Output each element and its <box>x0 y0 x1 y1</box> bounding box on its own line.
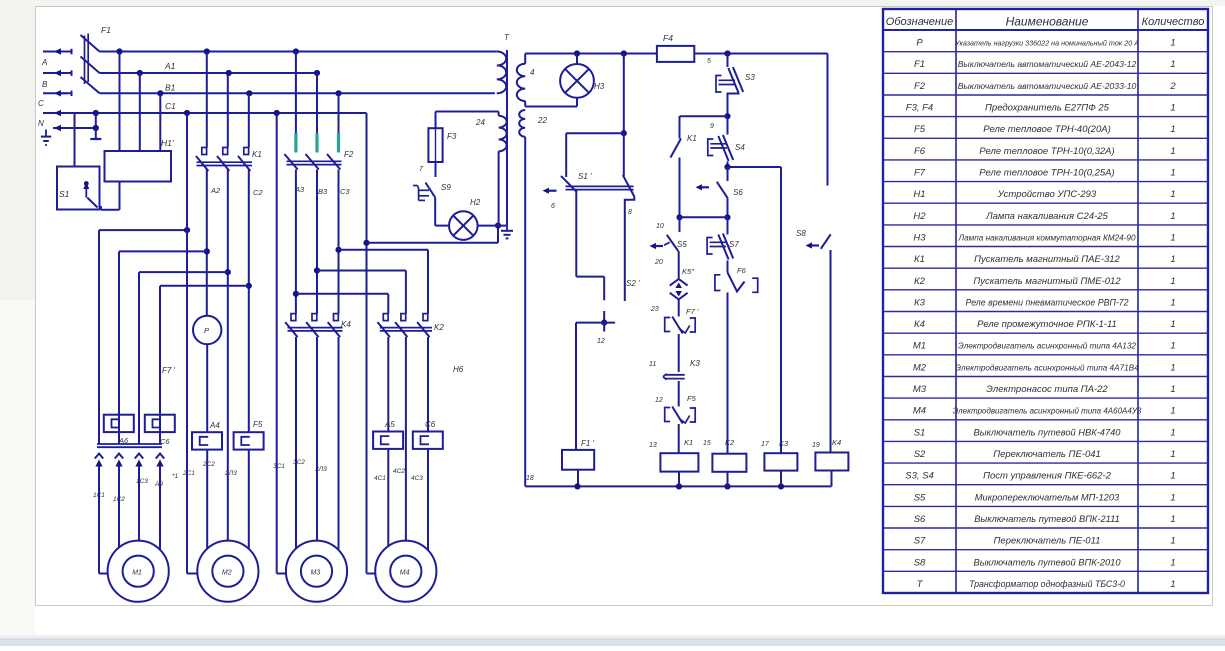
svg-text:S4: S4 <box>735 143 745 152</box>
svg-text:К4: К4 <box>914 319 925 330</box>
wire C1 to N tie <box>90 113 101 139</box>
wire node to coil F1 <box>575 323 577 450</box>
svg-text:F7: F7 <box>914 168 926 179</box>
svg-text:1: 1 <box>1170 189 1175 200</box>
svg-text:F4: F4 <box>663 33 673 43</box>
transformer winding 4 <box>517 54 535 102</box>
wire K1 pole1 down <box>204 170 210 316</box>
switch S9 fixed fork <box>413 186 429 201</box>
wire F2 pole1 down <box>293 170 299 314</box>
svg-text:S1: S1 <box>914 427 926 438</box>
svg-text:K5": K5" <box>682 267 694 276</box>
motor M2 <box>197 541 258 602</box>
svg-text:22: 22 <box>537 116 547 125</box>
lamp H3 <box>560 54 605 98</box>
fuse F4 <box>657 33 694 62</box>
svg-text:Трансформатор однофазный ТБС3-: Трансформатор однофазный ТБС3-0 <box>969 579 1125 589</box>
transformer T core <box>504 33 510 226</box>
switch S7 wire <box>727 217 729 234</box>
svg-text:F1: F1 <box>101 25 111 35</box>
svg-text:A: A <box>41 58 47 67</box>
svg-text:4: 4 <box>530 68 535 77</box>
svg-text:1: 1 <box>1170 557 1175 568</box>
switch S8 <box>796 229 831 249</box>
wire branch to M1 phase d <box>160 286 249 415</box>
table row S8 <box>914 557 1176 568</box>
contactor K2 main contacts <box>378 314 445 338</box>
wire rail to S1 second pole <box>621 54 627 137</box>
table row S2 <box>914 449 1176 460</box>
plug connector arrows X1 <box>95 454 164 477</box>
svg-text:C1: C1 <box>165 101 176 111</box>
thermal contact F5 <box>665 394 697 424</box>
svg-text:Электродвигатель асинхронный т: Электродвигатель асинхронный типа 4А71В4 <box>955 363 1139 372</box>
wire K2 pole1 down <box>387 337 389 432</box>
svg-text:S1: S1 <box>59 189 70 199</box>
switch S9 blade <box>426 183 452 198</box>
svg-text:2Л3: 2Л3 <box>224 470 237 477</box>
svg-text:K3: K3 <box>779 439 789 448</box>
table row F5 <box>914 124 1176 135</box>
wire 12 (K1 branch) <box>655 381 679 407</box>
control bottom rail <box>525 483 831 489</box>
wire coil F1 to rail <box>526 470 578 487</box>
wire C1 drop to S1 <box>74 113 76 167</box>
table header separator <box>883 29 1208 31</box>
wire rail to S3 <box>707 54 728 68</box>
svg-text:1: 1 <box>1170 168 1175 179</box>
svg-text:1: 1 <box>1170 59 1175 70</box>
pneumatic element K5 <box>670 267 694 299</box>
circuit breaker F1 (3-pole knife) <box>81 25 112 93</box>
svg-text:М2: М2 <box>913 362 927 373</box>
svg-text:Переключатель ПЕ-041: Переключатель ПЕ-041 <box>993 449 1101 460</box>
svg-text:1: 1 <box>1170 427 1175 438</box>
svg-text:Н1: Н1 <box>913 189 925 200</box>
wires connector to M1 <box>99 475 160 574</box>
svg-text:K1: K1 <box>684 438 693 447</box>
table row Т <box>917 579 1176 590</box>
wire F3 to S9 <box>419 162 436 177</box>
svg-text:K1: K1 <box>252 150 262 159</box>
table row Н2 <box>913 211 1175 222</box>
svg-text:F3: F3 <box>447 132 457 141</box>
table row К2 <box>914 276 1176 287</box>
lamp H2 <box>449 198 481 240</box>
svg-text:H1': H1' <box>161 138 174 148</box>
table column dividers <box>955 9 957 593</box>
svg-text:Выключатель автоматический АЕ-: Выключатель автоматический АЕ-2033-10 <box>958 81 1137 91</box>
svg-text:S7: S7 <box>914 536 926 547</box>
svg-text:F1: F1 <box>914 59 925 70</box>
wire A5 to M4 <box>387 449 389 546</box>
label F7 tick <box>162 366 176 375</box>
table row F2 <box>914 81 1176 92</box>
bus phase 3 (B1) <box>100 92 495 94</box>
svg-text:Н3: Н3 <box>594 82 605 91</box>
svg-text:A1: A1 <box>164 61 176 71</box>
svg-text:1: 1 <box>1170 211 1175 222</box>
coil F1 <box>562 439 595 470</box>
coil K3 <box>761 439 797 471</box>
transformer winding 22 <box>519 110 547 137</box>
bottom window bar <box>0 640 1225 647</box>
svg-text:23: 23 <box>650 306 659 313</box>
bottom window bar highlight <box>0 635 1225 639</box>
switch S1' double bar <box>566 172 634 190</box>
svg-text:Предохранитель Е27ПФ 25: Предохранитель Е27ПФ 25 <box>985 103 1110 114</box>
junction dots on bus C1 <box>93 110 280 116</box>
svg-text:1: 1 <box>1170 146 1175 157</box>
node 10 bar <box>656 217 728 230</box>
wire lamp H2 to ground <box>478 225 507 227</box>
svg-text:1: 1 <box>1170 406 1175 417</box>
wire F6 to coil K2 <box>727 293 729 454</box>
svg-text:19: 19 <box>812 442 820 449</box>
svg-text:K2: K2 <box>725 438 735 447</box>
svg-text:Электродвигатель асинхронный т: Электродвигатель асинхронный типа 4А132 <box>958 342 1136 351</box>
svg-text:A5: A5 <box>384 420 395 429</box>
svg-text:F6: F6 <box>737 266 747 275</box>
wire A4 to motor M2 <box>206 450 208 549</box>
table row М1 <box>913 341 1176 352</box>
time contact K3 <box>663 359 700 380</box>
coil K2 <box>703 438 746 472</box>
svg-text:F2: F2 <box>344 150 354 159</box>
pushbutton S4 <box>708 135 746 161</box>
svg-text:3Л3: 3Л3 <box>315 466 327 473</box>
svg-text:Электродвигатель асинхронный т: Электродвигатель асинхронный типа 4А60А4… <box>953 407 1142 416</box>
device H1 box <box>105 138 174 182</box>
component table outer border <box>883 9 1208 593</box>
thermal contact F6 <box>715 266 758 292</box>
switch S6 <box>696 167 744 198</box>
wire winding4 bottom to lamp H3 <box>525 98 577 107</box>
connector trip bar <box>97 444 162 447</box>
svg-text:Лампа накаливания С24-25: Лампа накаливания С24-25 <box>985 211 1108 222</box>
connector pin labels <box>93 473 179 503</box>
svg-text:Выключатель путевой НВК-4740: Выключатель путевой НВК-4740 <box>974 427 1122 437</box>
svg-text:1: 1 <box>1170 492 1175 503</box>
svg-text:B1: B1 <box>165 83 176 93</box>
svg-text:S5: S5 <box>914 492 926 503</box>
svg-text:1: 1 <box>1170 341 1175 352</box>
svg-text:Устройство УПС-293: Устройство УПС-293 <box>997 189 1097 200</box>
svg-text:S9: S9 <box>441 183 451 192</box>
wire node9 to K1 aux <box>680 116 728 138</box>
thermal contact F7 <box>665 307 699 334</box>
svg-text:Переключатель ПЕ-011: Переключатель ПЕ-011 <box>994 536 1101 547</box>
table row М2 <box>913 362 1176 373</box>
bus B1 label <box>165 83 176 93</box>
svg-text:1: 1 <box>1170 514 1175 525</box>
svg-text:S7: S7 <box>729 240 739 249</box>
switch S5 <box>650 217 688 251</box>
svg-text:K2: K2 <box>434 323 444 332</box>
table row S3, S4 <box>905 471 1175 482</box>
svg-text:C3: C3 <box>340 187 350 196</box>
pushbutton S7 <box>707 234 739 260</box>
svg-text:8: 8 <box>628 209 632 216</box>
svg-text:18: 18 <box>526 475 534 482</box>
svg-text:K3: K3 <box>690 359 700 368</box>
svg-text:F5: F5 <box>687 394 697 403</box>
svg-text:S6: S6 <box>733 188 743 197</box>
svg-text:1: 1 <box>1170 103 1175 114</box>
wire coil K2 to rail <box>727 472 729 487</box>
fuse F3 <box>428 128 456 162</box>
svg-text:М4: М4 <box>400 570 410 577</box>
svg-text:K1: K1 <box>687 134 697 143</box>
svg-text:K4: K4 <box>832 438 841 447</box>
svg-text:K4: K4 <box>341 320 351 329</box>
svg-text:Реле времени пневматическое РВ: Реле времени пневматическое РВП-72 <box>965 297 1128 307</box>
junction dots on bus3 <box>157 90 341 96</box>
wire F2 pole3 down <box>335 170 341 314</box>
svg-text:Электронасос типа ПА-22: Электронасос типа ПА-22 <box>986 384 1108 395</box>
heater element A6 <box>104 415 134 445</box>
svg-text:A4: A4 <box>209 421 220 430</box>
bus phase 4 (C1) <box>43 110 367 116</box>
svg-text:S3, S4: S3, S4 <box>905 471 934 482</box>
motor M3 <box>286 541 347 602</box>
top page margin <box>0 0 1225 6</box>
table header text <box>886 15 1205 29</box>
svg-text:1: 1 <box>1170 254 1175 265</box>
svg-text:1: 1 <box>1170 449 1175 460</box>
svg-text:F1 ': F1 ' <box>581 439 595 448</box>
wire S4 to node <box>724 162 730 171</box>
wire drop bus2 to H1 <box>139 73 141 151</box>
wire winding24 top to fuse F3 <box>436 112 499 129</box>
table row К4 <box>914 319 1176 330</box>
table row Н1 <box>913 189 1175 200</box>
wire S8 to coil K4 <box>830 250 832 453</box>
wire drop bus1 to H1 <box>119 52 121 152</box>
svg-text:2C1: 2C1 <box>182 470 195 477</box>
svg-text:Пускатель магнитный ПМЕ-012: Пускатель магнитный ПМЕ-012 <box>973 276 1121 287</box>
motor M1 <box>108 541 169 602</box>
wire K2 pole3 down <box>427 337 429 432</box>
svg-text:B3: B3 <box>318 187 328 196</box>
wire F5 to coil K1 <box>678 424 680 453</box>
svg-text:1: 1 <box>1170 319 1175 330</box>
svg-text:24: 24 <box>475 118 485 127</box>
svg-text:2: 2 <box>1169 81 1176 92</box>
svg-text:4C2: 4C2 <box>393 468 405 475</box>
svg-text:S5: S5 <box>677 240 687 249</box>
svg-text:C2: C2 <box>253 188 263 197</box>
table row Р <box>916 38 1175 49</box>
svg-text:C6: C6 <box>425 420 436 429</box>
wire F5 to motor M2 <box>248 450 250 549</box>
svg-text:Реле тепловое ТРН-40(20А): Реле тепловое ТРН-40(20А) <box>983 124 1110 135</box>
wire K4p1 branch to K2 <box>296 294 388 314</box>
svg-text:2C2: 2C2 <box>202 461 215 468</box>
table row М3 <box>913 384 1176 395</box>
svg-text:1: 1 <box>1170 124 1175 135</box>
svg-text:H2: H2 <box>470 198 481 207</box>
wire S6 down <box>724 198 730 220</box>
table row F1 <box>914 59 1176 70</box>
svg-text:5: 5 <box>707 58 711 65</box>
svg-text:1: 1 <box>1170 579 1175 590</box>
svg-text:*1: *1 <box>172 473 179 480</box>
heater element A5 <box>373 420 403 449</box>
labels 3C1 3C2 3L3 <box>273 459 327 473</box>
svg-text:F7 ': F7 ' <box>162 366 176 375</box>
switch S1 blade <box>87 198 97 208</box>
bus phase 1 (top) <box>100 51 497 53</box>
switch S1' arrow <box>543 188 557 210</box>
svg-text:Лампа накаливания коммутаторна: Лампа накаливания коммутаторная КМ24-90 <box>957 233 1136 242</box>
wire C6 to M4 <box>427 449 429 550</box>
wire 8 down from S1' <box>625 197 635 302</box>
svg-text:B: B <box>42 80 48 89</box>
wire rail to S8 <box>827 54 829 186</box>
three-phase supply stub B with arrow <box>42 70 72 89</box>
svg-text:F3, F4: F3, F4 <box>906 103 933 114</box>
svg-text:A2: A2 <box>210 186 221 195</box>
labels A3 B3 C3 <box>294 185 350 196</box>
bus C1 label <box>165 101 176 111</box>
wire coil K4 to rail <box>831 471 833 487</box>
label H6 <box>453 365 464 374</box>
svg-text:S2: S2 <box>914 449 926 460</box>
switch S1 actuator arrow <box>83 181 89 198</box>
wire F2 pole2 down <box>314 170 320 314</box>
table row Н3 <box>913 232 1175 243</box>
left rail of control circuit <box>524 137 526 487</box>
svg-text:1: 1 <box>1170 276 1175 287</box>
svg-text:Количество: Количество <box>1142 16 1205 28</box>
svg-text:Пост управления ПКЕ-662-2: Пост управления ПКЕ-662-2 <box>983 471 1112 482</box>
svg-text:Указатель нагрузки 336022 на н: Указатель нагрузки 336022 на номинальный… <box>954 39 1139 48</box>
wire branch to M1 phase c <box>139 272 228 444</box>
svg-text:1: 1 <box>1170 297 1175 308</box>
wire 20 <box>654 251 679 279</box>
wire branch to coil K3 <box>728 167 782 453</box>
wire S3 to node 9 <box>710 93 739 130</box>
wire C1 to M4 elbow <box>363 113 375 574</box>
svg-text:S6: S6 <box>914 514 926 525</box>
coil K1 <box>649 438 698 472</box>
wire F7 to K3 contact <box>649 334 679 372</box>
breaker F2 contacts with indicators <box>284 52 353 170</box>
svg-text:C: C <box>38 99 44 108</box>
svg-text:20: 20 <box>654 259 663 266</box>
svg-text:3C1: 3C1 <box>273 463 285 470</box>
wire coil K3 to rail <box>780 471 782 487</box>
wire S2 path <box>576 191 604 301</box>
heater element C6 (M4) <box>413 420 443 449</box>
wire P to heater A4 <box>206 344 208 432</box>
heater element C6 (M1) <box>145 415 175 446</box>
table row S6 <box>914 514 1176 525</box>
svg-text:Реле тепловое ТРН-10(0,32А): Реле тепловое ТРН-10(0,32А) <box>979 146 1114 157</box>
contactor K4 main contacts <box>285 314 351 338</box>
heater element A4 <box>192 421 222 450</box>
wire K1 pole2 down to M2 <box>225 170 231 541</box>
coil K4 <box>812 438 848 471</box>
wire K2 pole2 down to M4 <box>405 337 407 541</box>
switch S1' left blade <box>561 176 576 192</box>
wire K4p2 branch to K2 <box>317 271 406 314</box>
wire drop bus3 to H1 <box>159 93 161 151</box>
svg-text:17: 17 <box>761 441 770 448</box>
svg-text:1: 1 <box>1170 362 1175 373</box>
svg-text:F5: F5 <box>914 124 926 135</box>
svg-text:Выключатель путевой ВПК-2010: Выключатель путевой ВПК-2010 <box>974 557 1122 567</box>
wire branch to M1 phase a <box>99 227 190 444</box>
svg-text:Н6: Н6 <box>453 365 464 374</box>
svg-text:S8: S8 <box>796 229 806 238</box>
wire node9 to S4 <box>727 116 729 134</box>
svg-text:К1: К1 <box>914 254 925 265</box>
table row М4 <box>913 406 1176 417</box>
wire winding24 bottom down <box>498 151 500 225</box>
transformer winding 24 <box>475 112 507 152</box>
control top rail <box>525 50 827 56</box>
wires K4 to motor M3 <box>296 337 339 550</box>
wire C1 to M3 elbow <box>277 113 286 574</box>
svg-text:М1: М1 <box>913 341 926 352</box>
bus A1 label <box>164 61 176 71</box>
wire H1 bottom to S1 contact <box>101 182 120 210</box>
svg-text:13: 13 <box>649 442 657 449</box>
svg-text:10: 10 <box>656 223 664 230</box>
svg-text:4C3: 4C3 <box>411 475 423 482</box>
svg-text:М3: М3 <box>913 384 927 395</box>
svg-text:1: 1 <box>1170 38 1175 49</box>
label A2 C2 <box>210 186 263 197</box>
junction dots on bus2 <box>137 70 320 76</box>
wire K4p3 branch to K2 <box>339 250 429 314</box>
svg-text:Реле тепловое ТРН-10(0,25А): Реле тепловое ТРН-10(0,25А) <box>979 168 1114 179</box>
table row S1 <box>914 427 1176 438</box>
table row S5 <box>914 492 1176 503</box>
svg-text:Обозначение: Обозначение <box>886 16 953 28</box>
wire coil K1 to rail <box>678 472 680 487</box>
wire S9 to lamp H2 <box>435 198 449 226</box>
wire K1 pole3 down <box>246 170 252 433</box>
wire S1' upper link <box>566 133 624 177</box>
svg-text:P: P <box>204 326 209 335</box>
switch S1' right blade <box>623 133 635 196</box>
svg-text:F6: F6 <box>914 146 926 157</box>
wire branch to M1 phase b <box>119 251 207 414</box>
svg-text:К3: К3 <box>914 297 926 308</box>
table row S7 <box>914 536 1176 547</box>
contact K1 auxiliary <box>671 134 697 158</box>
svg-text:1: 1 <box>1170 471 1175 482</box>
svg-text:3C2: 3C2 <box>293 459 305 466</box>
ground symbol below N <box>41 130 51 146</box>
wire S7 to F6 <box>727 261 729 273</box>
svg-text:12: 12 <box>597 338 605 345</box>
svg-text:М1: М1 <box>132 570 142 577</box>
svg-text:6: 6 <box>551 203 555 210</box>
svg-text:F5: F5 <box>253 420 263 429</box>
table row К1 <box>914 254 1176 265</box>
svg-text:S1 ': S1 ' <box>578 172 592 181</box>
svg-text:4C1: 4C1 <box>374 475 386 482</box>
wire lamp return branch <box>367 223 502 243</box>
ground at transformer <box>501 226 513 239</box>
svg-text:Микропереключательм МП-1203: Микропереключательм МП-1203 <box>975 492 1120 502</box>
transformer primary winding <box>497 52 506 94</box>
neutral input line N with arrow <box>38 119 96 131</box>
